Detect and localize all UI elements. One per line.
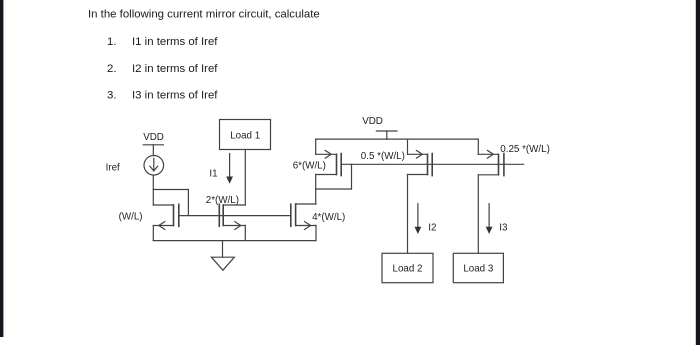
- svg-text:6*(W/L): 6*(W/L): [293, 161, 326, 172]
- gate rail PMOS M4-M5-M6: [341, 163, 523, 165]
- svg-text:I3 in terms of Iref: I3 in terms of Iref: [132, 89, 218, 101]
- svg-text:4*(W/L): 4*(W/L): [312, 212, 345, 223]
- left screen edge bar: [0, 0, 3, 337]
- transistor M2 2*(W/L): [219, 204, 245, 240]
- right screen edge bar: [696, 0, 700, 345]
- svg-text:(W/L): (W/L): [119, 212, 143, 223]
- wire Load 1 to M2 drain: [244, 150, 246, 206]
- ground: [211, 241, 234, 271]
- svg-text:0.25 *(W/L): 0.25 *(W/L): [500, 144, 550, 155]
- wire current source to M1 drain node: [152, 175, 154, 205]
- Load 1 box: [220, 120, 271, 150]
- current source Iref: [144, 156, 164, 176]
- transistor M4 6*(W/L) PMOS: [316, 139, 342, 176]
- svg-text:In the following current mirro: In the following current mirror circuit,…: [88, 9, 320, 21]
- Load 3 box: [453, 253, 503, 282]
- transistor M1 (W/L): [153, 204, 179, 240]
- svg-text:VDD: VDD: [362, 116, 383, 127]
- wire M4 drain to M3 drain: [315, 175, 317, 205]
- wire M4 diode tie: [316, 164, 352, 189]
- svg-text:2.: 2.: [107, 63, 117, 75]
- svg-text:I2 in terms of Iref: I2 in terms of Iref: [132, 63, 218, 75]
- svg-text:1.: 1.: [107, 36, 117, 48]
- gate rail M1-M2-M3: [179, 215, 291, 217]
- svg-text:Iref: Iref: [106, 162, 120, 173]
- VDD symbol right: [376, 131, 397, 139]
- transistor M6 0.25*(W/L) PMOS: [478, 139, 504, 176]
- svg-text:Load 3: Load 3: [463, 263, 494, 274]
- current arrow I1: [226, 154, 233, 184]
- current arrow I2: [415, 204, 422, 234]
- VDD rail top right: [316, 138, 479, 140]
- svg-text:VDD: VDD: [143, 132, 164, 143]
- svg-text:I1 in terms of Iref: I1 in terms of Iref: [132, 36, 218, 48]
- VDD symbol left: [143, 145, 163, 156]
- svg-text:I1: I1: [209, 169, 217, 180]
- svg-text:3.: 3.: [107, 89, 117, 101]
- Load 2 box: [382, 253, 433, 282]
- bottom source rail: [153, 240, 316, 242]
- svg-text:Load 2: Load 2: [393, 263, 423, 274]
- wire diode tie vertical to gate rail: [187, 190, 189, 216]
- svg-text:2*(W/L): 2*(W/L): [206, 195, 239, 206]
- svg-text:Load 1: Load 1: [230, 130, 260, 141]
- transistor M5 0.5*(W/L) PMOS: [408, 139, 433, 176]
- svg-text:0.5 *(W/L): 0.5 *(W/L): [361, 151, 405, 162]
- wire M6 drain to Load 3: [477, 175, 479, 254]
- svg-text:I2: I2: [428, 222, 436, 233]
- current arrow I3: [486, 204, 493, 234]
- transistor M3 4*(W/L): [291, 204, 316, 241]
- wire diode tie horizontal: [153, 189, 188, 191]
- wire M5 drain to Load 2: [407, 175, 409, 254]
- svg-text:I3: I3: [499, 222, 508, 233]
